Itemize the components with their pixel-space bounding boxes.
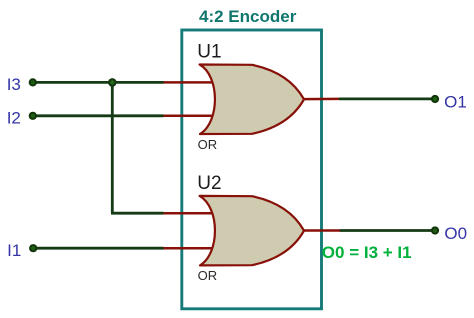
wire I1 horizontal (33, 247, 164, 250)
wire I3 horizontal (32, 81, 164, 84)
wire O1 (339, 98, 435, 101)
wire branch horizontal to U2 input (111, 212, 164, 215)
wire I2 horizontal (32, 114, 164, 117)
terminal O0 (431, 226, 439, 234)
terminal I2 (29, 112, 37, 120)
encoder block outline (182, 30, 322, 309)
svg-text:U1: U1 (197, 42, 221, 63)
wire branch vertical from I3 junction (111, 82, 114, 213)
svg-text:I1: I1 (7, 241, 21, 260)
svg-text:O0 = I3 + I1: O0 = I3 + I1 (322, 243, 412, 262)
svg-text:O1: O1 (444, 93, 467, 112)
or gate U1 body (200, 65, 304, 135)
svg-text:O0: O0 (444, 224, 467, 243)
or gate U2 body (200, 196, 304, 266)
terminal O1 (431, 95, 439, 103)
U2 input pin 2 (164, 247, 214, 250)
U2 output pin (304, 229, 340, 232)
wire O0 (340, 229, 436, 232)
U1 input pin 1 (164, 81, 214, 84)
terminal I1 (29, 244, 37, 252)
svg-text:OR: OR (198, 268, 218, 283)
U1 output pin (304, 98, 339, 101)
svg-text:U2: U2 (197, 173, 221, 194)
svg-text:OR: OR (198, 137, 218, 152)
junction dot on I3 wire (108, 78, 117, 87)
svg-text:I3: I3 (7, 75, 21, 94)
terminal I3 (29, 78, 37, 86)
U1 input pin 2 (164, 115, 214, 118)
svg-text:I2: I2 (7, 109, 21, 128)
svg-text:4:2 Encoder: 4:2 Encoder (199, 7, 297, 26)
U2 input pin 1 (164, 212, 214, 215)
